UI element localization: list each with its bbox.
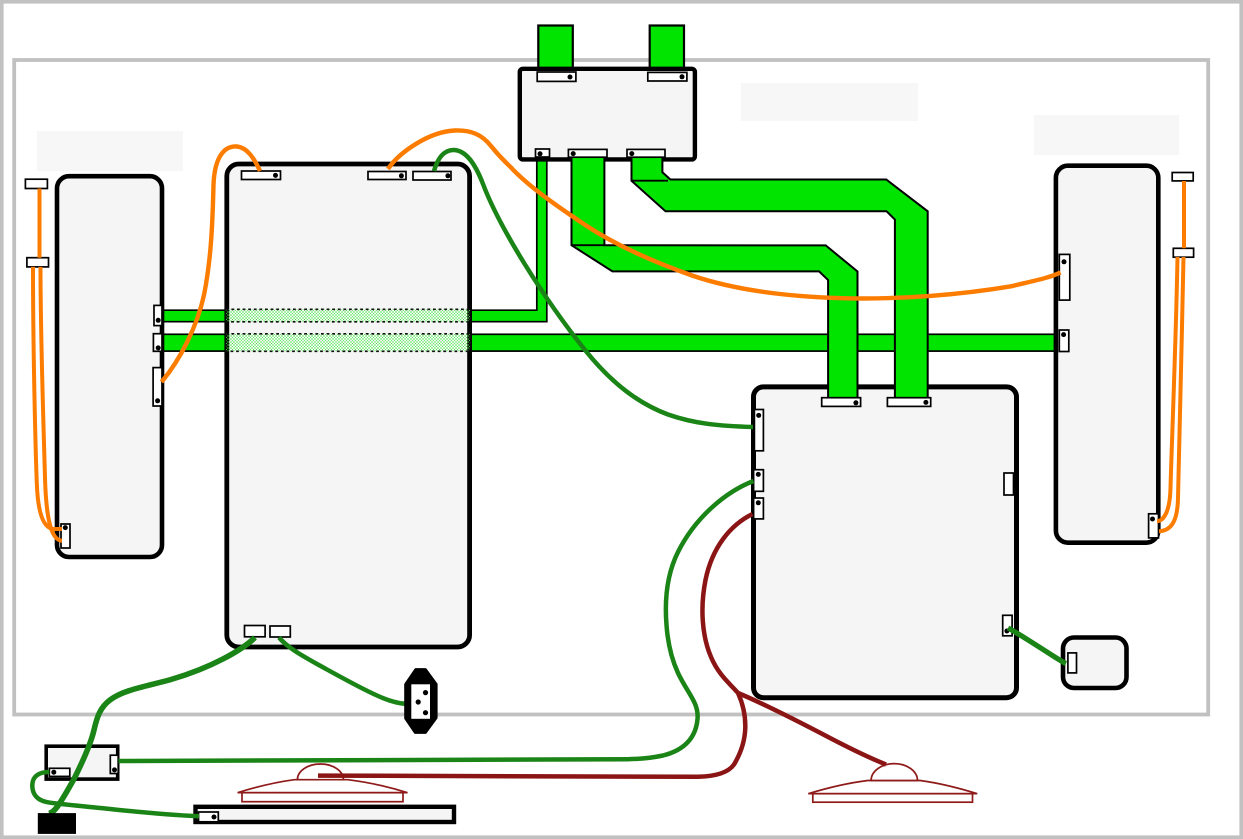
box3 port tab bottom 2 bbox=[270, 626, 290, 637]
box4 port tab top 1 bbox=[537, 72, 576, 81]
wire orange 1 (box3 top to box2 tall tab) bbox=[162, 146, 261, 382]
mouse right bbox=[808, 764, 977, 803]
box4 top hub bbox=[520, 69, 695, 160]
wall tab A left bbox=[25, 179, 47, 188]
box5 port tab top 2 bbox=[887, 398, 930, 407]
box3 port tab top 1 bbox=[242, 171, 281, 180]
ribbon duct E (top right uplink) bbox=[650, 26, 684, 77]
wire green (box3 bottom to C13 connector) bbox=[279, 638, 407, 705]
box2 port tab bottom bbox=[61, 524, 70, 548]
wall tab C right bbox=[1172, 173, 1193, 181]
box5 main device bbox=[754, 387, 1017, 698]
hatched bus lower inside box3 bbox=[226, 334, 470, 352]
box4 port tab bottom 1 bbox=[536, 149, 550, 157]
wire orange tab A to tab B bbox=[38, 189, 42, 258]
box7 port tab bbox=[1068, 653, 1077, 673]
wire orange tab C to tab D bbox=[1182, 181, 1186, 248]
ribbon duct D (top left uplink) bbox=[538, 26, 573, 77]
box4 port tab top 2 bbox=[648, 72, 687, 81]
label placeholder top bbox=[741, 83, 918, 121]
box6 port tab left lower bbox=[1059, 330, 1069, 352]
ribbon B (hub to box5 left duct) bbox=[572, 152, 858, 399]
mouse left bbox=[238, 764, 408, 802]
box3 port tab top 3 bbox=[413, 172, 451, 181]
box5 port tab left 3 bbox=[754, 498, 764, 519]
ribbon C (hub to box5 right duct) bbox=[632, 152, 928, 399]
box7 small device bbox=[1063, 638, 1127, 689]
wire orange pair left inner bbox=[41, 267, 63, 541]
wall tab D right bbox=[1173, 248, 1193, 257]
wire green (power strip loop to keyboard) bbox=[32, 772, 199, 816]
box3 port tab bottom 1 bbox=[245, 626, 266, 637]
label placeholder left bbox=[37, 131, 183, 171]
wire dark green 2 (box5 left tab to power strip) bbox=[119, 481, 754, 761]
box5 port tab right 1 bbox=[1004, 473, 1014, 495]
box5 port tab top 1 bbox=[822, 398, 861, 407]
keyboard port tab bbox=[199, 812, 219, 822]
box2 left tall device bbox=[57, 176, 162, 557]
box2 port tab right upper bbox=[154, 305, 162, 325]
power strip port tab 1 bbox=[49, 768, 70, 776]
ribbon C crease bbox=[632, 180, 669, 182]
inner frame bbox=[14, 60, 1208, 715]
power plug block bbox=[38, 813, 76, 834]
wire orange pair right outer bbox=[1159, 257, 1184, 531]
wire dark green 1 (box3 top to box5 left tab) bbox=[434, 150, 753, 427]
box5 port tab left 2 bbox=[754, 470, 764, 492]
wire dark red branch to right mouse bbox=[738, 693, 886, 765]
wire green (box3 bottom to power plug) bbox=[49, 638, 255, 814]
keyboard bbox=[196, 807, 455, 822]
box5 port tab left 1 bbox=[754, 410, 763, 451]
label placeholder right bbox=[1034, 115, 1179, 155]
wire bus lower (green ribbon across page) bbox=[161, 334, 1056, 351]
wire orange pair right inner bbox=[1157, 257, 1178, 521]
box4 port tab bottom 2 bbox=[568, 149, 607, 157]
power strip port tab 2 bbox=[110, 755, 118, 773]
box2 port tab right tall bbox=[153, 368, 162, 406]
wire dark red branch to left mouse bbox=[318, 693, 745, 777]
box6 right tall device bbox=[1056, 166, 1158, 543]
box4 port tab bottom 3 bbox=[627, 149, 665, 157]
box3 port tab top 2 bbox=[368, 172, 406, 180]
box5 port tab right 2 bbox=[1003, 615, 1012, 636]
box2 port tab right middle bbox=[153, 334, 162, 352]
power strip bbox=[46, 746, 118, 779]
wire bus upper with riser to hub box bbox=[161, 152, 547, 322]
wire orange 2 (box3 top to box6 tall tab) bbox=[388, 130, 1061, 298]
ribbon B crease bbox=[572, 244, 605, 246]
wall tab B left bbox=[27, 258, 49, 267]
wire dark red main (box5 left tab down) bbox=[702, 514, 752, 693]
hatched bus upper inside box3 bbox=[226, 309, 470, 322]
box6 port tab left tall bbox=[1059, 254, 1070, 300]
wire orange pair left outer bbox=[33, 267, 62, 529]
box3 center tall device bbox=[227, 164, 470, 647]
wire dark green 3 (box5 right tab to box7) bbox=[1008, 628, 1066, 664]
C13 power connector bbox=[406, 670, 436, 733]
box6 port tab right bottom bbox=[1149, 514, 1159, 538]
